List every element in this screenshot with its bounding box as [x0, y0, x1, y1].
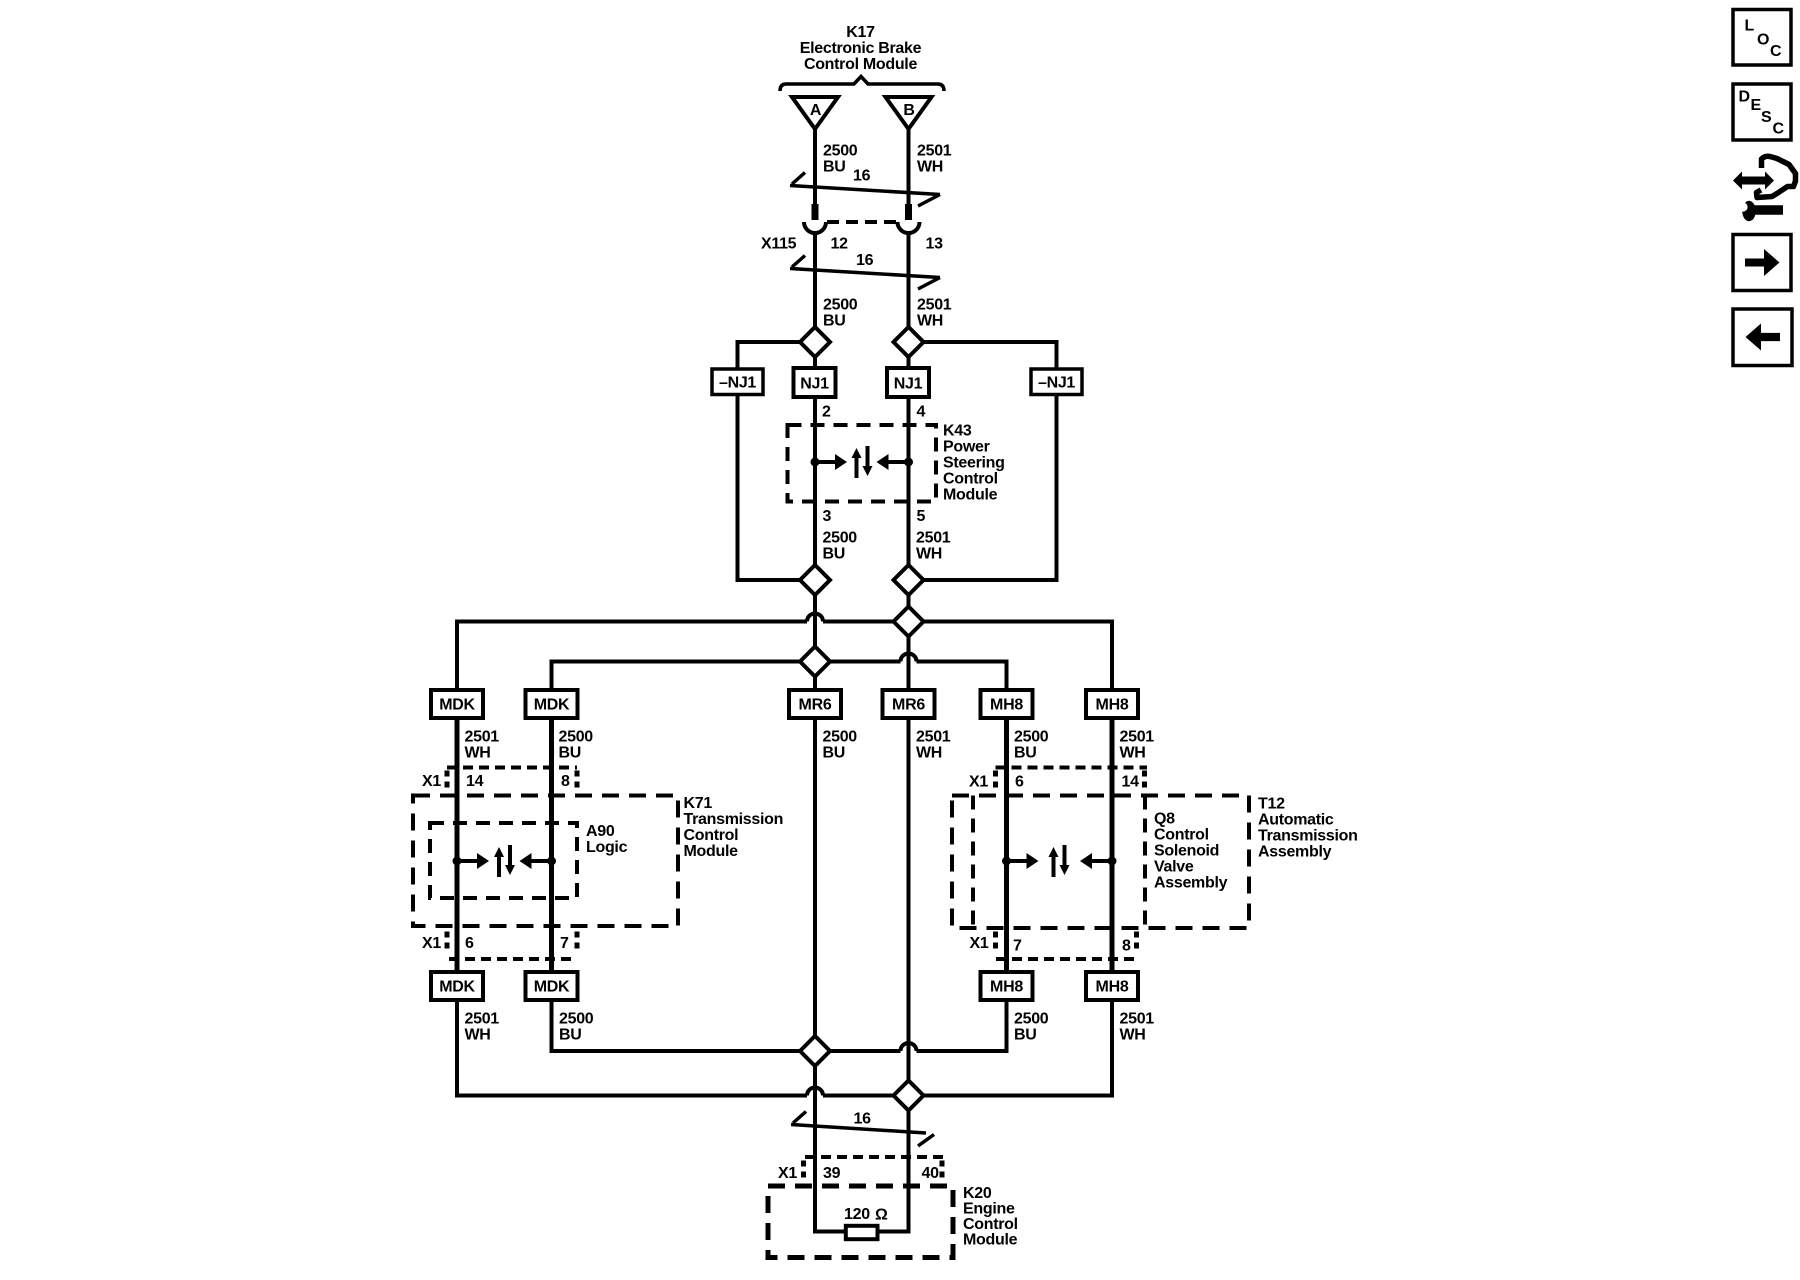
- module K43 dashed outline: [788, 425, 937, 502]
- svg-text:BU: BU: [559, 745, 582, 762]
- terminal MDK top-second: [526, 690, 578, 718]
- svg-text:X115: X115: [761, 236, 797, 253]
- svg-text:2500: 2500: [1014, 1011, 1049, 1028]
- svg-text:2501: 2501: [1120, 729, 1155, 746]
- svg-text:2500: 2500: [823, 530, 858, 547]
- sidebar DESC button: [1733, 84, 1791, 140]
- svg-text:7: 7: [560, 935, 569, 952]
- connector X1 of K20 strip: [778, 1157, 943, 1182]
- splice diamond on bottom 2501 WH line: [894, 1081, 924, 1111]
- svg-text:X1: X1: [969, 774, 988, 791]
- X115 male pin 12 bar: [812, 204, 819, 220]
- sidebar back arrow button: [1733, 309, 1792, 366]
- terminal MDK top-left: [431, 690, 483, 718]
- svg-text:Assembly: Assembly: [1258, 844, 1332, 861]
- sidebar LOC button: [1733, 10, 1791, 66]
- assembly T12 name text: [1258, 796, 1358, 861]
- splice diamond on 2501 WH above NJ1: [894, 327, 924, 357]
- svg-text:4: 4: [917, 404, 926, 421]
- svg-text:NJ1: NJ1: [800, 376, 829, 393]
- wire 2501 WH K71 column upper: [455, 718, 460, 972]
- svg-text:BU: BU: [559, 1027, 582, 1044]
- svg-text:6: 6: [465, 935, 474, 952]
- splice diamond on bottom 2500 BU line: [800, 1036, 830, 1066]
- svg-text:7: 7: [1013, 938, 1022, 955]
- svg-text:C: C: [1770, 43, 1782, 60]
- svg-text:MH8: MH8: [1096, 979, 1129, 996]
- svg-text:T12: T12: [1258, 796, 1285, 813]
- svg-text:8: 8: [1122, 938, 1131, 955]
- svg-text:2500: 2500: [823, 297, 858, 314]
- module K43 name text: [943, 423, 1005, 504]
- svg-text:Power: Power: [943, 439, 990, 456]
- svg-text:2500: 2500: [823, 729, 858, 746]
- wire bottom 2501 WH hop over 2500 BU: [807, 1088, 823, 1096]
- svg-text:MDK: MDK: [534, 697, 570, 714]
- svg-text:X1: X1: [422, 935, 441, 952]
- svg-text:Steering: Steering: [943, 455, 1005, 472]
- svg-text:12: 12: [831, 236, 849, 253]
- svg-text:MR6: MR6: [892, 697, 925, 714]
- svg-text:BU: BU: [823, 313, 846, 330]
- svg-text:NJ1: NJ1: [894, 376, 923, 393]
- splice diamond on bus2 at 2500 BU: [800, 647, 830, 677]
- connector X1 of T12 top strip: [969, 768, 1147, 792]
- svg-text:6: 6: [1015, 774, 1024, 791]
- wire 2501 WH main vertical from X115 to K20 resistor stub: [878, 233, 909, 1232]
- A90 CAN transceiver symbol: [453, 845, 557, 877]
- in-line connector -NJ1 far right: [1031, 369, 1082, 395]
- svg-text:2501: 2501: [1120, 1011, 1155, 1028]
- svg-text:A90: A90: [586, 823, 615, 840]
- in-line connector -NJ1 far left: [712, 369, 763, 395]
- svg-text:X1: X1: [970, 935, 989, 952]
- svg-text:2500: 2500: [1014, 729, 1049, 746]
- svg-text:WH: WH: [916, 546, 942, 563]
- svg-text:WH: WH: [1120, 1027, 1146, 1044]
- svg-text:16: 16: [853, 168, 871, 185]
- connector X1 of T12 bottom strip: [970, 932, 1138, 960]
- svg-text:2500: 2500: [559, 729, 594, 746]
- svg-text:MR6: MR6: [799, 697, 832, 714]
- svg-text:Automatic: Automatic: [1258, 812, 1334, 829]
- svg-text:2501: 2501: [916, 530, 951, 547]
- wire 2501 WH K71 column lower to bottom bus: [457, 1000, 807, 1096]
- svg-text:14: 14: [1122, 774, 1140, 791]
- svg-text:WH: WH: [465, 1027, 491, 1044]
- connector X1 of K71 bottom strip: [422, 932, 577, 960]
- svg-text:2501: 2501: [917, 143, 952, 160]
- svg-text:2501: 2501: [465, 1011, 500, 1028]
- wire 2500 BU K71 column upper: [549, 718, 554, 972]
- svg-text:2: 2: [822, 404, 831, 421]
- svg-text:MDK: MDK: [439, 697, 475, 714]
- module K71 name text: [684, 795, 784, 860]
- svg-text:BU: BU: [823, 159, 846, 176]
- svg-text:WH: WH: [465, 745, 491, 762]
- wire bottom 2500 BU right segment up to MH8: [917, 1000, 1007, 1051]
- svg-text:8: 8: [561, 773, 570, 790]
- svg-text:K20: K20: [963, 1185, 992, 1202]
- svg-text:Module: Module: [943, 487, 998, 504]
- svg-text:X1: X1: [778, 1165, 797, 1182]
- svg-text:2501: 2501: [917, 297, 952, 314]
- svg-text:BU: BU: [1014, 745, 1037, 762]
- svg-text:2500: 2500: [559, 1011, 594, 1028]
- wire 2501 WH T12 column: [1110, 718, 1115, 972]
- terminal MH8 bottom-left: [981, 972, 1033, 1000]
- wire 2500 BU K71 column lower to bottom bus: [552, 1000, 901, 1051]
- svg-text:Engine: Engine: [963, 1201, 1015, 1218]
- sidebar next arrow button: [1733, 235, 1791, 291]
- terminal MH8 bottom-right: [1086, 972, 1138, 1000]
- connector X1 of K71 top strip: [422, 768, 577, 792]
- assembly T12 dashed outline: [952, 796, 1249, 929]
- terminal MDK bottom-left: [431, 972, 483, 1000]
- svg-text:–NJ1: –NJ1: [719, 375, 756, 392]
- terminal MH8 top-left: [981, 690, 1033, 718]
- svg-text:Transmission: Transmission: [684, 811, 784, 828]
- svg-text:WH: WH: [917, 313, 943, 330]
- svg-text:BU: BU: [823, 745, 846, 762]
- splice diamond on 2500 BU above NJ1: [800, 327, 830, 357]
- svg-text:Control Module: Control Module: [804, 56, 918, 73]
- svg-text:WH: WH: [1120, 745, 1146, 762]
- svg-text:Solenoid: Solenoid: [1154, 843, 1219, 860]
- in-line connector NJ1 right: [887, 368, 929, 397]
- svg-text:2501: 2501: [916, 729, 951, 746]
- sidebar repair icon (double arrow, hook, wrench): [1733, 156, 1796, 221]
- svg-text:Ω: Ω: [875, 1207, 888, 1224]
- svg-text:A: A: [810, 102, 822, 119]
- svg-text:14: 14: [466, 773, 484, 790]
- svg-text:Electronic Brake: Electronic Brake: [800, 40, 922, 57]
- svg-text:2501: 2501: [465, 729, 500, 746]
- svg-text:40: 40: [922, 1165, 940, 1182]
- svg-text:D: D: [1739, 89, 1750, 106]
- terminal MDK bottom-second: [526, 972, 578, 1000]
- twisted pair symbol 1 with gauge 16: [790, 168, 940, 207]
- X115 male pin 13 bar: [905, 204, 912, 220]
- module K20 name text: [963, 1185, 1018, 1249]
- svg-text:WH: WH: [917, 159, 943, 176]
- svg-text:Q8: Q8: [1154, 811, 1175, 828]
- svg-text:–NJ1: –NJ1: [1038, 375, 1075, 392]
- svg-text:K43: K43: [943, 423, 972, 440]
- svg-text:K17: K17: [846, 24, 875, 41]
- svg-text:MH8: MH8: [990, 979, 1023, 996]
- solenoid Q8 dashed left edge: [971, 796, 975, 929]
- module K17 header text: [800, 24, 922, 73]
- svg-text:Module: Module: [684, 843, 739, 860]
- K43 CAN transceiver symbol: [811, 446, 914, 478]
- svg-text:BU: BU: [823, 546, 846, 563]
- svg-text:O: O: [1757, 32, 1769, 49]
- wire 2500 BU T12 column: [1004, 718, 1009, 972]
- wire bottom 2500 BU hop over 2501 WH: [901, 1043, 917, 1051]
- svg-text:S: S: [1761, 109, 1772, 126]
- splice diamond on 2500 BU below K43: [800, 565, 830, 595]
- svg-text:MDK: MDK: [439, 979, 475, 996]
- svg-text:2500: 2500: [823, 143, 858, 160]
- svg-text:16: 16: [854, 1111, 872, 1128]
- terminal MR6 left: [789, 690, 841, 718]
- wire bus2 2500 BU right segment to MH8: [917, 662, 1007, 691]
- connector X115: [761, 204, 943, 253]
- wire 2500 BU from K17 pin A down to X115: [813, 128, 817, 204]
- wire bottom 2501 WH right segment up to MH8: [823, 1000, 1112, 1096]
- svg-text:Control: Control: [963, 1216, 1018, 1233]
- K17 pin A triangle: [792, 97, 838, 129]
- solenoid Q8 dashed right edge: [1143, 796, 1147, 929]
- svg-text:X1: X1: [422, 773, 441, 790]
- resistor 120 ohm value label: [844, 1206, 888, 1224]
- svg-text:13: 13: [926, 236, 944, 253]
- wire right NJ1 loop branch: [909, 342, 1057, 580]
- K17 brace: [780, 77, 944, 92]
- svg-text:K71: K71: [684, 795, 713, 812]
- svg-text:MH8: MH8: [990, 697, 1023, 714]
- svg-text:B: B: [903, 102, 914, 119]
- svg-text:Control: Control: [684, 827, 739, 844]
- module K20 dashed outline: [768, 1186, 953, 1258]
- svg-text:Logic: Logic: [586, 839, 628, 856]
- terminal MR6 right: [883, 690, 935, 718]
- wire bus1 2501 WH left segment to MDK: [457, 622, 807, 691]
- svg-text:E: E: [1751, 97, 1762, 114]
- svg-text:MH8: MH8: [1096, 697, 1129, 714]
- svg-text:Valve: Valve: [1154, 859, 1194, 876]
- wire 2501 WH from K17 pin B down to X115: [907, 128, 911, 204]
- svg-text:16: 16: [856, 252, 874, 269]
- wire bus2 hop over 2501 WH: [901, 654, 917, 662]
- svg-text:Control: Control: [943, 471, 998, 488]
- svg-text:L: L: [1745, 18, 1755, 35]
- logic block A90 name text: [586, 823, 628, 856]
- X115 female terminal arc left: [804, 222, 826, 233]
- twisted pair symbol 3 with gauge 16: [791, 1111, 934, 1147]
- svg-text:C: C: [1773, 121, 1785, 138]
- svg-text:Assembly: Assembly: [1154, 875, 1228, 892]
- resistor 120 ohm body: [846, 1226, 878, 1239]
- splice diamond on 2501 WH below K43: [894, 565, 924, 595]
- svg-text:WH: WH: [916, 745, 942, 762]
- svg-text:MDK: MDK: [534, 979, 570, 996]
- K17 pin B triangle: [886, 97, 932, 129]
- in-line connector NJ1 left: [794, 368, 836, 397]
- svg-text:Transmission: Transmission: [1258, 828, 1358, 845]
- svg-text:Module: Module: [963, 1232, 1018, 1249]
- Q8 CAN transceiver symbol: [1002, 845, 1117, 877]
- X115 dashed connector link: [827, 220, 896, 224]
- wire left NJ1 loop branch: [738, 342, 816, 580]
- svg-text:BU: BU: [1014, 1027, 1037, 1044]
- terminal MH8 top-right: [1086, 690, 1138, 718]
- svg-text:39: 39: [823, 1165, 841, 1182]
- svg-text:3: 3: [823, 508, 832, 525]
- wire 2500 BU main vertical from X115 to K20 resistor stub: [815, 233, 846, 1232]
- X115 female terminal arc right: [898, 222, 920, 233]
- svg-text:120: 120: [844, 1206, 870, 1223]
- module K71 dashed outline: [413, 796, 678, 927]
- twisted pair symbol 2 with gauge 16: [790, 252, 940, 289]
- wire bus2 2500 BU left segment to MDK: [552, 662, 901, 691]
- svg-text:5: 5: [917, 508, 926, 525]
- solenoid Q8 name text: [1154, 811, 1228, 892]
- splice diamond on bus1 at 2501 WH: [894, 607, 924, 637]
- svg-text:Control: Control: [1154, 827, 1209, 844]
- logic block A90 dashed outline: [430, 823, 577, 898]
- wire bus1 hop over 2500 BU: [807, 614, 823, 622]
- wire bus1 2501 WH right segment to MH8: [823, 622, 1112, 691]
